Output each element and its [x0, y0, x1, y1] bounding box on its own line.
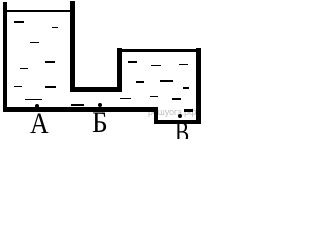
- liquid dash L7: [45, 86, 56, 88]
- liquid dash R2: [151, 65, 161, 67]
- left vessel right wall: [70, 1, 75, 91]
- liquid dash R5: [160, 80, 173, 82]
- liquid dash L4: [45, 61, 55, 63]
- point B dot: [98, 103, 102, 107]
- point A dot: [35, 104, 39, 108]
- label A: [30, 109, 49, 139]
- right vessel left wall: [117, 48, 122, 92]
- label B: [92, 108, 108, 138]
- label V: [175, 118, 189, 148]
- liquid dash R1: [128, 61, 137, 63]
- liquid dash C0 channel: [71, 104, 84, 106]
- notch bottom bar: [154, 120, 201, 124]
- liquid dash L8 long: [25, 99, 42, 101]
- liquid dash R4: [179, 64, 188, 66]
- liquid dash R8 short: [183, 87, 188, 89]
- left vessel liquid surface line: [7, 10, 70, 12]
- main bottom bar: [3, 107, 159, 112]
- shelf bar between vessels: [70, 87, 121, 92]
- point V dot: [178, 114, 182, 118]
- liquid dash L6: [14, 86, 22, 88]
- liquid dash R6: [150, 96, 158, 98]
- left vessel left wall: [3, 2, 8, 112]
- liquid dash L3: [30, 42, 40, 44]
- liquid dash L1: [14, 21, 24, 23]
- liquid dash R3: [136, 81, 144, 83]
- right vessel liquid surface line: [122, 49, 197, 52]
- liquid dash R7: [172, 98, 182, 100]
- liquid dash C1: [120, 98, 131, 100]
- watermark: [148, 108, 196, 117]
- notch drop bar: [154, 112, 158, 121]
- liquid dash L5: [20, 68, 29, 70]
- right vessel right wall: [196, 48, 201, 124]
- liquid dash L2: [52, 27, 58, 29]
- liquid dash N1 notch: [184, 109, 193, 112]
